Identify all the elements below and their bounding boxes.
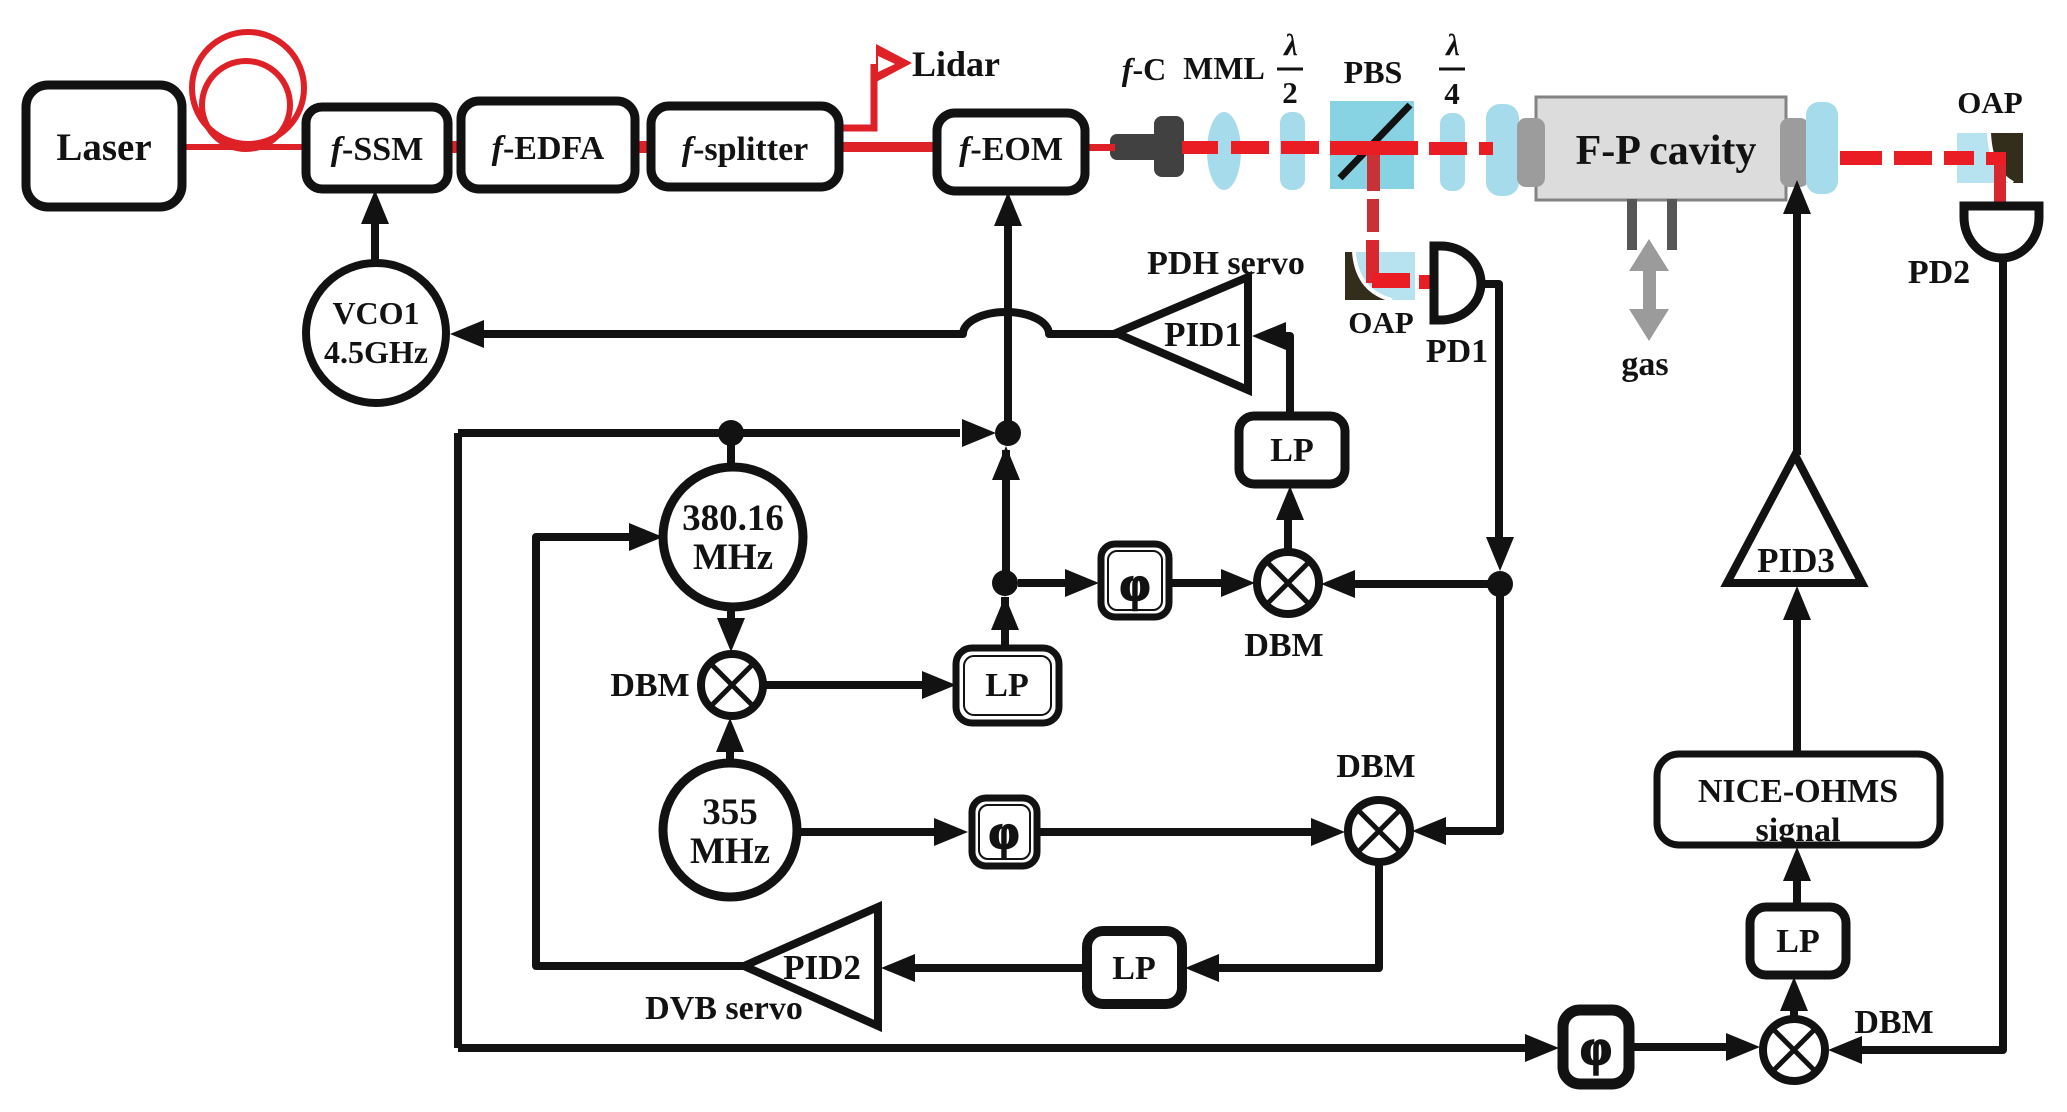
beam through PBS xyxy=(1330,141,1418,155)
filter LP2 box double border xyxy=(956,648,1059,723)
arrowhead into DBM1 top xyxy=(717,618,745,652)
fiber Lidar tap xyxy=(839,64,874,128)
mixer DBM4 xyxy=(1763,1019,1825,1081)
svg-text:LP: LP xyxy=(1270,432,1313,469)
svg-text:MML: MML xyxy=(1183,50,1265,86)
wire DBM1 to LP2 xyxy=(763,681,924,689)
wire node C to DBM2 xyxy=(1352,580,1500,588)
svg-text:DBM: DBM xyxy=(1244,627,1323,664)
waveplate lambda/4 xyxy=(1440,113,1465,191)
svg-text:PBS: PBS xyxy=(1344,54,1403,90)
wire phase shifter 3 to DBM4 xyxy=(1630,1043,1728,1051)
mixer DBM2 xyxy=(1257,552,1319,614)
wire node A vertical (LP to junction up) xyxy=(1001,597,1009,647)
arrowhead into DBM3 right xyxy=(1412,817,1446,845)
box f-EOM xyxy=(937,113,1085,191)
arrowhead into f-EOM xyxy=(994,192,1022,226)
wire NICE-OHMS box to PID3 xyxy=(1793,616,1801,754)
svg-text:signal: signal xyxy=(1755,812,1840,849)
node dot 380.16 bus xyxy=(718,420,744,446)
svg-text:PDH servo: PDH servo xyxy=(1147,245,1305,282)
wire 355 MHz to DBM1 xyxy=(726,748,734,763)
wire LP3 to PID2 xyxy=(912,964,1087,972)
arrowhead into PID3 xyxy=(1783,586,1811,620)
svg-text:DBM: DBM xyxy=(1336,748,1415,785)
svg-text:MHz: MHz xyxy=(693,537,773,578)
beam dashes cavity to OAP2 xyxy=(1840,151,1882,165)
svg-text:DBM: DBM xyxy=(1854,1004,1933,1041)
filter LP1 box xyxy=(1239,416,1345,484)
wire VCO1 to f-SSM xyxy=(371,216,379,263)
beamsplitter PBS cube xyxy=(1330,101,1414,189)
photodiode PD1 xyxy=(1434,246,1481,320)
mirror cavity left xyxy=(1517,118,1545,187)
svg-text:Lidar: Lidar xyxy=(912,44,1000,84)
wire 380.16 MHz bus horizontal xyxy=(458,429,960,437)
wire PID3 to F-P cavity piezo xyxy=(1793,205,1801,455)
beam OAP1 to PD1 xyxy=(1372,273,1410,288)
beam dashes f-C to PBS xyxy=(1182,141,1218,154)
svg-text:λ: λ xyxy=(1444,27,1460,62)
arrowhead into f-SSM xyxy=(361,190,389,224)
waveplate lambda/2 xyxy=(1280,112,1305,190)
arrowhead into DBM3 left xyxy=(1311,818,1345,846)
arrowhead into VCO1 xyxy=(450,320,484,348)
svg-text:DBM: DBM xyxy=(610,667,689,704)
box f-SSM xyxy=(306,107,448,189)
node A dot xyxy=(992,570,1018,596)
arrowhead into 380.16 MHz xyxy=(629,523,663,551)
arrowhead into node B from below xyxy=(992,446,1020,480)
gas inlet tubes xyxy=(1627,199,1637,250)
arrowhead into LP1 xyxy=(1276,486,1304,520)
fiber f-SSM to f-EDFA xyxy=(446,141,463,153)
wire phase shifter 1 to DBM2 xyxy=(1169,579,1222,587)
svg-text:LP: LP xyxy=(1112,950,1155,987)
beam PBS reflected down xyxy=(1367,155,1380,191)
svg-text:PD1: PD1 xyxy=(1426,333,1488,370)
gas double arrow xyxy=(1629,239,1669,341)
svg-text:380.16: 380.16 xyxy=(682,498,784,539)
svg-text:f-SSM: f-SSM xyxy=(331,131,424,168)
arrowhead into node C from above xyxy=(1486,537,1514,571)
svg-text:f-splitter: f-splitter xyxy=(682,131,809,168)
svg-text:φ: φ xyxy=(989,806,1019,859)
wire 380.16 MHz stub to oscillator xyxy=(727,433,735,467)
svg-text:4: 4 xyxy=(1444,76,1460,111)
fiber collimator f-C xyxy=(1110,134,1162,160)
arrowhead into DBM4 left xyxy=(1726,1033,1760,1061)
svg-text:gas: gas xyxy=(1621,346,1668,383)
wire PD2 output down to DBM4 xyxy=(1860,258,2003,1050)
beam dashes PBS to cavity xyxy=(1429,142,1467,155)
mirror OAP2 xyxy=(1957,133,2023,183)
svg-text:NICE-OHMS: NICE-OHMS xyxy=(1698,773,1898,810)
filter LP3 box xyxy=(1087,931,1182,1004)
oscillator VCO1 circle xyxy=(306,263,446,403)
mirror OAP1 xyxy=(1345,252,1415,300)
fiber f-splitter to f-EOM xyxy=(839,142,939,152)
fiber Laser to f-SSM xyxy=(182,144,307,150)
wire LP1 to PID1 xyxy=(1284,336,1290,416)
wire PID2 output to 380.16 MHz xyxy=(536,537,744,966)
mirror cavity right xyxy=(1780,118,1809,187)
fiber coil inner loop xyxy=(202,61,290,149)
F-P cavity body xyxy=(1536,97,1786,200)
lens cavity input xyxy=(1486,104,1519,196)
lens cavity output xyxy=(1806,102,1838,194)
arrowhead into node B from left xyxy=(962,419,996,447)
box f-EDFA xyxy=(461,101,635,189)
svg-text:OAP: OAP xyxy=(1957,85,2023,120)
wire EOM drive vertical (junction node up to f-EOM) xyxy=(1004,222,1012,433)
svg-text:PID3: PID3 xyxy=(1757,541,1835,580)
svg-text:Laser: Laser xyxy=(56,126,151,169)
arrowhead into phase shifter 1 xyxy=(1065,569,1099,597)
wire DBM4 to LP4 xyxy=(1790,1008,1798,1019)
svg-text:F-P cavity: F-P cavity xyxy=(1576,128,1757,174)
wire LP4 to NICE-OHMS box xyxy=(1793,878,1801,907)
wire PID1 output to VCO1 (with hop over EOM feed line) xyxy=(478,312,1117,334)
arrowhead into LP4 xyxy=(1780,977,1808,1011)
amplifier PID2 triangle xyxy=(744,907,878,1026)
svg-text:DVB servo: DVB servo xyxy=(645,990,803,1027)
box f-splitter xyxy=(651,106,839,187)
arrowhead into phase shifter 3 xyxy=(1525,1034,1559,1062)
svg-text:4.5GHz: 4.5GHz xyxy=(324,334,428,370)
svg-text:MHz: MHz xyxy=(690,831,770,872)
svg-text:PD2: PD2 xyxy=(1908,254,1970,291)
wire phase shifter 2 to DBM3 xyxy=(1037,828,1312,836)
svg-text:φ: φ xyxy=(1120,558,1150,611)
svg-text:VCO1: VCO1 xyxy=(332,295,419,331)
amplifier PID3 triangle xyxy=(1727,455,1862,583)
svg-text:f-EOM: f-EOM xyxy=(959,131,1063,168)
mixer DBM1 xyxy=(701,654,763,716)
wire DBM2 to LP1 xyxy=(1284,516,1292,552)
arrowhead into NICE-OHMS box xyxy=(1783,847,1811,881)
svg-text:355: 355 xyxy=(702,792,758,833)
arrowhead Lidar xyxy=(876,44,912,82)
box NICE-OHMS signal xyxy=(1657,754,1940,845)
filter LP4 box xyxy=(1750,907,1846,975)
svg-text:f-EDFA: f-EDFA xyxy=(492,130,605,167)
fiber f-EDFA to f-splitter xyxy=(633,141,653,153)
oscillator 355 MHz circle xyxy=(663,763,797,897)
wire DBM3 to LP3 xyxy=(1216,862,1379,968)
beam OAP2 down to PD2 xyxy=(1994,165,2006,208)
lens MML xyxy=(1207,112,1241,190)
phase shifter 2 box double border xyxy=(972,798,1037,866)
svg-text:λ: λ xyxy=(1282,27,1298,62)
phase shifter 3 box xyxy=(1563,1010,1629,1084)
svg-text:OAP: OAP xyxy=(1348,305,1414,340)
wire node A to phase shifter 1 xyxy=(1018,579,1066,587)
mixer DBM3 xyxy=(1348,800,1410,862)
beam f-EOM to f-C xyxy=(1085,144,1115,151)
box Laser xyxy=(26,85,182,207)
arrowhead into LP2 xyxy=(922,671,956,699)
svg-text:PID2: PID2 xyxy=(783,948,861,987)
svg-text:2: 2 xyxy=(1282,75,1298,110)
wire bottom bus to phase shifter 3 xyxy=(458,1044,1526,1052)
arrowhead into DBM2 left xyxy=(1221,569,1255,597)
arrowhead into node A from below xyxy=(991,596,1019,630)
svg-text:φ: φ xyxy=(1580,1019,1611,1075)
arrowhead into phase shifter 2 xyxy=(934,818,968,846)
arrowhead into DBM1 bottom xyxy=(716,718,744,752)
fiber coil outer loop xyxy=(192,32,304,144)
arrowhead into PID1 xyxy=(1252,322,1286,350)
arrowhead into DBM2 right xyxy=(1321,570,1355,598)
photodiode PD2 xyxy=(1964,206,2039,258)
oscillator 380.16 MHz circle xyxy=(663,467,803,607)
svg-text:LP: LP xyxy=(985,667,1028,704)
wire PD1 output down to node C xyxy=(1482,284,1499,540)
svg-text:f-C: f-C xyxy=(1122,51,1166,87)
arrowhead into LP3 xyxy=(1185,954,1219,982)
svg-text:PID1: PID1 xyxy=(1164,315,1242,354)
phase shifter 1 box double border xyxy=(1101,544,1169,617)
arrowhead into F-P cavity xyxy=(1783,180,1811,214)
arrowhead into PID2 xyxy=(881,954,915,982)
wire 355 MHz to phase shifter 2 xyxy=(797,828,936,836)
node C dot xyxy=(1487,571,1513,597)
amplifier PID1 triangle xyxy=(1116,277,1248,390)
node B dot xyxy=(995,420,1021,446)
arrowhead into DBM4 right xyxy=(1828,1036,1862,1064)
wire 380.16 MHz to DBM1 xyxy=(727,607,735,622)
svg-text:LP: LP xyxy=(1776,923,1819,960)
wire left feedback vertical xyxy=(454,433,462,1048)
wire node C down to DBM3 xyxy=(1442,584,1500,831)
wire node A to node B vertical xyxy=(1002,450,1010,572)
